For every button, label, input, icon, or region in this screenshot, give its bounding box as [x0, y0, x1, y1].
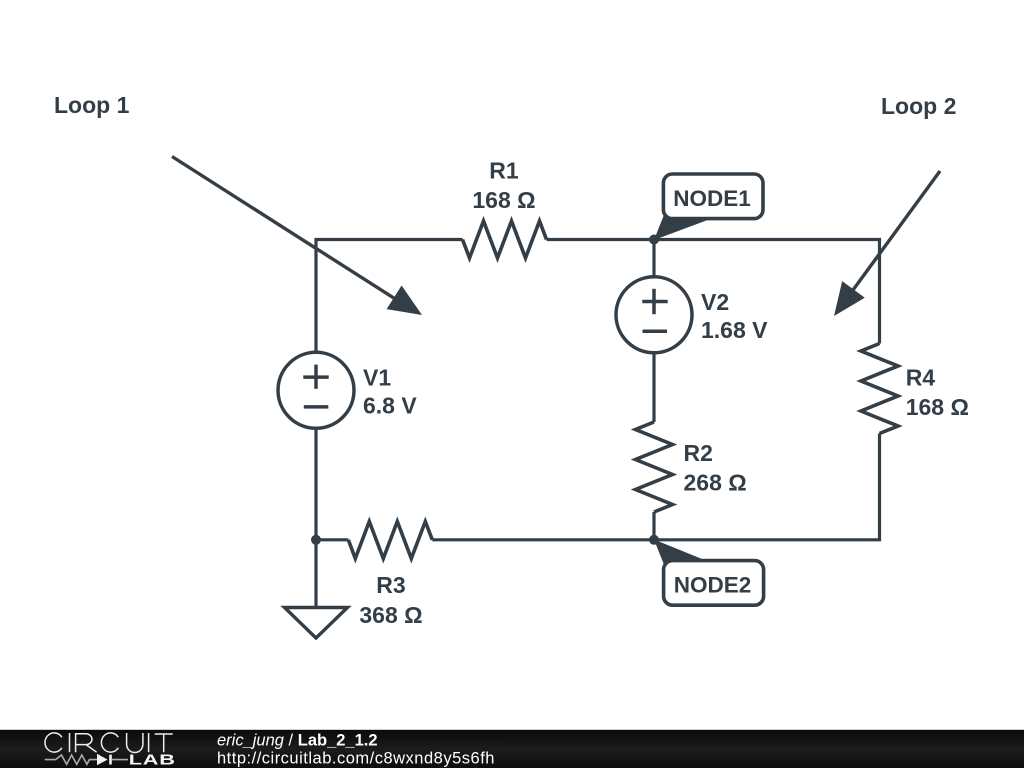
svg-text:168 Ω: 168 Ω [472, 187, 535, 213]
node B junction dot [649, 535, 659, 545]
wire R4 bottom to bottom-right corner to node B [654, 434, 880, 540]
wire R3 left to node C [316, 538, 348, 541]
wire R2 bottom to node B [652, 512, 655, 540]
node A junction dot [649, 235, 659, 245]
svg-text:V1: V1 [363, 365, 391, 391]
wire V1 top to R1 left (corner) [316, 240, 463, 353]
resistor R1 [463, 221, 547, 258]
loop 1 arrow [172, 157, 422, 316]
svg-text:R2: R2 [684, 440, 713, 466]
wire V2 bottom to R2 top [652, 353, 655, 422]
svg-text:268 Ω: 268 Ω [684, 469, 747, 495]
wire node B to R3 right [432, 538, 654, 541]
voltage source V1 [278, 352, 354, 428]
ground [285, 608, 348, 639]
resistor R3 [348, 522, 432, 559]
resistor R2 [636, 422, 673, 512]
wire V1 bottom to node C [314, 429, 317, 540]
svg-text:168 Ω: 168 Ω [906, 394, 969, 420]
svg-text:R1: R1 [489, 158, 519, 184]
resistor R4 [861, 344, 898, 434]
wire node C to ground [314, 540, 317, 608]
svg-text:R4: R4 [906, 365, 936, 391]
loop 2 arrow [834, 171, 940, 316]
svg-text:http://circuitlab.com/c8wxnd8y: http://circuitlab.com/c8wxnd8y5s6fh [217, 750, 495, 768]
svg-text:6.8 V: 6.8 V [363, 393, 417, 419]
wire node A to top-right corner down to R4 [654, 240, 880, 344]
footer bar [0, 730, 1024, 768]
node NODE1 flag [663, 174, 763, 219]
svg-text:NODE1: NODE1 [673, 186, 751, 211]
CircuitLab logo wordmark [45, 733, 173, 753]
svg-text:NODE2: NODE2 [674, 572, 752, 597]
svg-text:eric_jung / Lab_2_1.2: eric_jung / Lab_2_1.2 [217, 732, 378, 750]
svg-text:V2: V2 [701, 289, 729, 315]
svg-text:R3: R3 [376, 572, 405, 598]
svg-text:LAB: LAB [129, 751, 176, 768]
node NODE2 flag pointer [654, 540, 707, 564]
svg-text:Loop 2: Loop 2 [881, 93, 956, 119]
svg-text:1.68 V: 1.68 V [701, 317, 768, 343]
svg-text:Loop 1: Loop 1 [54, 92, 130, 118]
node C junction dot [311, 535, 321, 545]
wire R1 right to node A [547, 238, 655, 241]
voltage source V2 [616, 277, 692, 353]
node NODE2 flag [664, 561, 764, 606]
CircuitLab logo waveform with diode [45, 754, 128, 765]
node NODE1 flag pointer [654, 216, 709, 240]
svg-text:368 Ω: 368 Ω [359, 602, 422, 628]
wire node A to V2 top [652, 240, 655, 278]
